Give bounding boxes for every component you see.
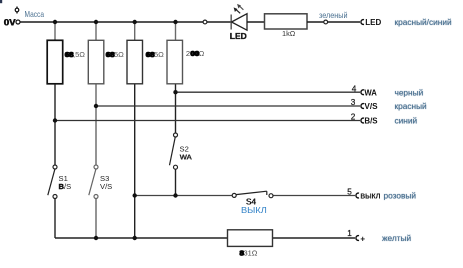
svg-text:5: 5 <box>347 187 352 196</box>
svg-text:WA: WA <box>364 88 377 97</box>
svg-text:2: 2 <box>351 113 356 122</box>
svg-text:Масса: Масса <box>25 10 45 19</box>
svg-text:0V: 0V <box>4 18 16 28</box>
svg-text:B/S: B/S <box>59 182 72 191</box>
svg-text:синий: синий <box>395 116 418 126</box>
svg-text:685Ω: 685Ω <box>146 50 165 59</box>
svg-text:ВЫКЛ: ВЫКЛ <box>241 205 267 215</box>
svg-text:LED: LED <box>230 32 247 41</box>
svg-text:4: 4 <box>352 84 357 93</box>
svg-text:красный/синий: красный/синий <box>395 17 452 27</box>
svg-text:ВЫКЛ: ВЫКЛ <box>360 192 380 201</box>
svg-text:WA: WA <box>180 152 193 161</box>
svg-text:зеленый: зеленый <box>319 11 348 20</box>
svg-text:красный: красный <box>395 101 428 111</box>
svg-text:831Ω: 831Ω <box>239 249 258 258</box>
svg-text:200Ω: 200Ω <box>186 49 205 58</box>
svg-text:3: 3 <box>351 98 356 107</box>
svg-text:1kΩ: 1kΩ <box>282 29 296 38</box>
svg-text:+: + <box>360 234 365 243</box>
svg-text:желтый: желтый <box>382 233 411 243</box>
svg-text:685Ω: 685Ω <box>106 50 125 59</box>
svg-text:V/S: V/S <box>100 182 112 191</box>
svg-text:LED: LED <box>365 18 381 27</box>
svg-text:розовый: розовый <box>384 191 417 201</box>
svg-text:68,5Ω: 68,5Ω <box>65 50 86 59</box>
svg-text:V/S: V/S <box>364 102 378 111</box>
svg-text:1: 1 <box>347 229 352 238</box>
svg-text:черный: черный <box>395 87 424 97</box>
svg-text:B/S: B/S <box>364 117 378 126</box>
